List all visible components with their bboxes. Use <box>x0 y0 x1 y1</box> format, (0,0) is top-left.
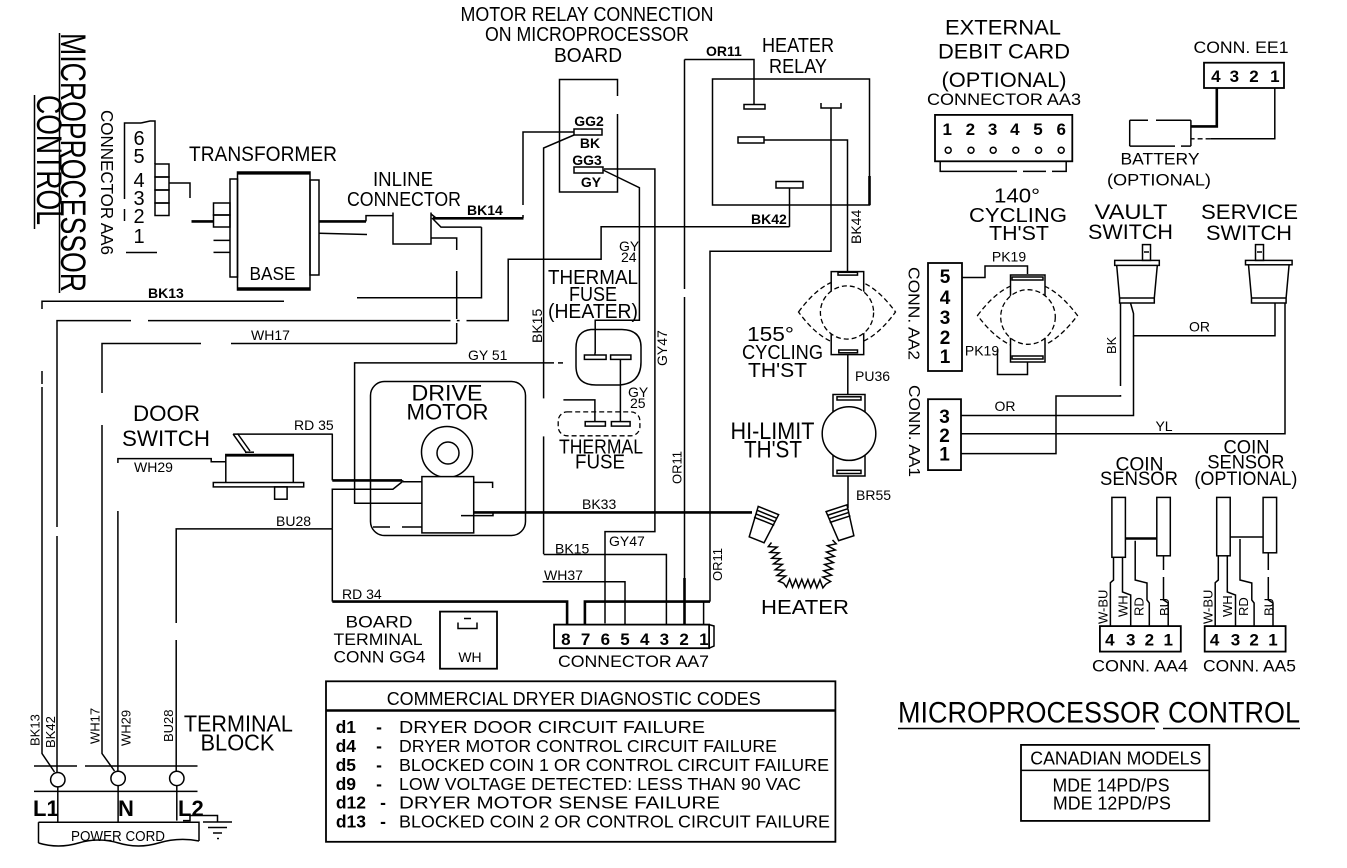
svg-text:d9: d9 <box>336 774 357 794</box>
pin numbers AA1 3..1 <box>939 407 950 466</box>
svg-text:5: 5 <box>620 630 629 649</box>
svg-text:WH: WH <box>458 649 481 665</box>
svg-text:TRANSFORMER: TRANSFORMER <box>189 143 337 166</box>
table rows d1..d13 <box>336 717 830 832</box>
wire EE1 pin4 to battery <box>1191 88 1217 126</box>
wire GY25 fuse to fuse <box>619 359 621 421</box>
inline connector U body <box>393 213 431 245</box>
svg-text:BK44: BK44 <box>848 210 864 244</box>
terminal block rails <box>34 766 198 791</box>
connector AA5 box <box>1205 626 1286 652</box>
transformer primary tap boxes <box>214 203 231 252</box>
battery box (dashed) <box>1130 120 1191 146</box>
title MICROPROCESSOR (vertical) <box>53 33 92 293</box>
connector AA1 box <box>928 399 961 470</box>
wire GY51 end dash <box>558 362 563 364</box>
wire WH29 <box>118 459 226 772</box>
wire OR vault to service <box>1131 303 1276 336</box>
svg-text:2: 2 <box>1249 631 1258 650</box>
motor lead lower-left tab <box>373 526 422 528</box>
svg-text:RD 34: RD 34 <box>342 586 382 602</box>
wire stub to transformer primary <box>192 220 214 223</box>
svg-text:1: 1 <box>940 347 951 368</box>
wire BK vault to AA1 pin1 <box>961 303 1121 454</box>
connector AA6 pin housing (4 squares) <box>155 164 169 216</box>
svg-text:5: 5 <box>940 267 951 288</box>
svg-text:N: N <box>118 796 134 821</box>
svg-text:3: 3 <box>988 120 997 139</box>
svg-text:4: 4 <box>1105 631 1115 650</box>
svg-text:GY47: GY47 <box>609 533 645 549</box>
svg-text:4: 4 <box>940 288 951 309</box>
svg-text:1: 1 <box>1163 631 1172 650</box>
svg-text:TH'ST: TH'ST <box>989 223 1049 245</box>
svg-text:DRYER MOTOR SENSE FAILURE: DRYER MOTOR SENSE FAILURE <box>399 793 720 813</box>
svg-text:BK14: BK14 <box>467 202 503 218</box>
coin sensor 2 wire labels W-BU WH RD BU (vertical) <box>1200 590 1276 624</box>
label DRIVE MOTOR <box>407 381 489 425</box>
motor lead right-top <box>474 482 493 488</box>
svg-text:-: - <box>380 812 386 832</box>
svg-text:CONN. AA1: CONN. AA1 <box>905 385 922 477</box>
svg-text:7: 7 <box>581 630 590 649</box>
connector AA2 box <box>928 263 962 371</box>
svg-text:BOARD: BOARD <box>346 613 413 632</box>
svg-text:BK33: BK33 <box>582 496 616 512</box>
pin numbers AA2 5..1 <box>940 267 951 368</box>
label DOOR SWITCH <box>122 401 210 451</box>
svg-text:RELAY: RELAY <box>769 56 827 78</box>
svg-text:CONNECTOR: CONNECTOR <box>347 189 461 211</box>
board terminal GG4 box <box>440 612 497 669</box>
coin sensor 2 body <box>1217 497 1277 555</box>
motor lead upper-left <box>402 481 422 483</box>
door switch foot <box>275 487 288 499</box>
svg-text:1: 1 <box>133 226 144 248</box>
vault switch S2 body <box>1115 245 1160 303</box>
wire BK33 <box>474 511 752 514</box>
label HI-LIMIT TH'ST <box>731 418 815 464</box>
wire OR AA1 pin3 to vault <box>961 336 1134 416</box>
wire RD34 to pin8 <box>332 602 567 625</box>
svg-text:GY: GY <box>581 174 602 190</box>
svg-text:HEATER: HEATER <box>762 35 834 57</box>
svg-text:BK13: BK13 <box>28 714 43 746</box>
pin numbers AA5 4..1 <box>1210 631 1278 650</box>
svg-text:d13: d13 <box>336 812 366 832</box>
svg-text:ON MICROPROCESSOR: ON MICROPROCESSOR <box>485 24 689 46</box>
svg-text:3: 3 <box>1230 67 1239 86</box>
svg-text:(OPTIONAL): (OPTIONAL) <box>1194 469 1297 490</box>
wire break patches (dash-dot style) <box>40 205 1123 640</box>
relay contact bottom <box>776 182 803 227</box>
label 155 CYCLING TH'ST <box>742 324 823 382</box>
relay coil terminal middle <box>738 137 848 272</box>
service switch S3 body <box>1246 245 1293 303</box>
svg-text:BK: BK <box>1104 336 1119 354</box>
svg-text:GY 51: GY 51 <box>468 347 508 363</box>
svg-text:(OPTIONAL): (OPTIONAL) <box>942 69 1067 92</box>
wire AA2 pin5 to thermostat 140 top <box>962 266 1028 278</box>
thermal fuse lower contacts <box>585 422 630 427</box>
wire OR11 vertical to AA7 pin2 <box>684 60 686 579</box>
pin numbers EE1 4..1 <box>1211 67 1279 86</box>
motor body block <box>422 477 474 533</box>
svg-text:-: - <box>376 736 382 756</box>
svg-text:3: 3 <box>939 407 950 428</box>
svg-text:6: 6 <box>601 630 610 649</box>
svg-text:WH: WH <box>1220 595 1235 617</box>
svg-text:3: 3 <box>1231 631 1240 650</box>
svg-text:GY47: GY47 <box>654 330 670 366</box>
connector AA4 box <box>1100 626 1181 652</box>
heater terminal right <box>826 505 857 542</box>
svg-text:24: 24 <box>621 249 637 265</box>
thermal fuse heater body <box>576 330 641 386</box>
coin sensor 1 wire labels W-BU WH RD BU (vertical) <box>1096 590 1172 624</box>
terminal labels vertical BK13 BK42 WH17 WH29 BU28 <box>28 708 177 748</box>
wire transformer secondary bottom <box>319 233 367 234</box>
svg-text:FUSE: FUSE <box>575 452 625 474</box>
svg-text:DRYER MOTOR CONTROL CIRCUIT FA: DRYER MOTOR CONTROL CIRCUIT FAILURE <box>399 736 777 756</box>
svg-text:L1: L1 <box>33 796 59 821</box>
svg-text:2: 2 <box>966 120 975 139</box>
label COIN SENSOR (OPTIONAL) <box>1194 438 1297 491</box>
svg-text:PK19: PK19 <box>965 343 999 359</box>
svg-text:INLINE: INLINE <box>373 169 433 191</box>
svg-text:W-BU: W-BU <box>1096 590 1111 624</box>
svg-text:POWER CORD: POWER CORD <box>71 828 165 845</box>
svg-text:CONN. AA4: CONN. AA4 <box>1092 657 1188 676</box>
svg-text:BU: BU <box>1157 598 1172 616</box>
wire WH37 to pin5 <box>543 582 625 625</box>
label VAULT SWITCH <box>1088 201 1173 244</box>
wire BK15 from GG2 <box>544 135 574 554</box>
svg-text:BK: BK <box>580 135 600 151</box>
label TERMINAL BLOCK <box>184 711 293 756</box>
svg-text:WH29: WH29 <box>134 459 173 475</box>
wire transformer secondary top <box>319 220 366 223</box>
wire GY24 from GG3 <box>595 170 639 353</box>
svg-text:5: 5 <box>133 146 144 168</box>
svg-text:5: 5 <box>1033 120 1042 139</box>
pin numbers AA7 8..1 <box>561 630 708 649</box>
svg-text:BASE: BASE <box>250 264 296 284</box>
wire BK15 to pin3 <box>544 555 667 625</box>
svg-text:d1: d1 <box>336 717 357 737</box>
pin numbers AA6 6..1 <box>133 128 144 248</box>
svg-text:RD: RD <box>1236 597 1251 616</box>
svg-text:2: 2 <box>679 630 688 649</box>
svg-text:3: 3 <box>1126 631 1135 650</box>
svg-text:-: - <box>376 755 382 775</box>
svg-text:25: 25 <box>630 395 646 411</box>
svg-text:HEATER: HEATER <box>761 597 849 619</box>
svg-text:CONNECTOR AA3: CONNECTOR AA3 <box>927 91 1081 109</box>
svg-text:BU28: BU28 <box>276 513 311 529</box>
svg-text:WH37: WH37 <box>544 567 583 583</box>
svg-text:BU: BU <box>1262 598 1277 616</box>
title CONTROL (vertical) <box>29 95 68 229</box>
svg-text:2: 2 <box>1249 67 1258 86</box>
svg-text:BOARD: BOARD <box>554 45 622 67</box>
svg-text:DOOR: DOOR <box>133 401 200 426</box>
svg-text:RD 35: RD 35 <box>294 417 334 433</box>
svg-text:1: 1 <box>1268 631 1277 650</box>
svg-text:MOTOR RELAY CONNECTION: MOTOR RELAY CONNECTION <box>461 4 714 26</box>
svg-text:CONN. AA2: CONN. AA2 <box>905 267 922 360</box>
wire GY51 <box>355 363 554 503</box>
AA3 bottom bracket <box>940 161 1066 171</box>
svg-text:OR: OR <box>1189 319 1210 335</box>
terminal GG3 <box>572 152 603 190</box>
svg-text:6: 6 <box>1056 120 1065 139</box>
door lever foot <box>245 451 254 453</box>
terminal GG2 <box>574 113 604 151</box>
svg-text:4: 4 <box>1010 120 1020 139</box>
svg-text:BK13: BK13 <box>148 285 184 301</box>
svg-text:4: 4 <box>1211 67 1221 86</box>
svg-text:CONN GG4: CONN GG4 <box>334 648 426 667</box>
table frame <box>326 681 835 842</box>
svg-text:L2: L2 <box>178 796 204 821</box>
svg-text:SERVICE: SERVICE <box>1201 201 1298 224</box>
svg-text:BR55: BR55 <box>856 487 891 503</box>
svg-text:YL: YL <box>1155 418 1172 434</box>
svg-text:GG2: GG2 <box>574 113 604 129</box>
svg-text:BATTERY: BATTERY <box>1121 150 1200 169</box>
door switch S1 lever <box>233 434 250 453</box>
svg-text:BK42: BK42 <box>751 211 787 227</box>
connector AA6 outline <box>125 121 158 253</box>
svg-text:TH'ST: TH'ST <box>748 360 807 382</box>
svg-text:(HEATER): (HEATER) <box>548 301 638 323</box>
label COIN SENSOR <box>1100 455 1178 491</box>
wire inline connector diagonal to x482 <box>357 218 482 298</box>
coin sensor 1 body <box>1112 497 1170 557</box>
svg-text:OR11: OR11 <box>706 43 742 59</box>
title MICROPROCESSOR CONTROL <box>898 697 1300 730</box>
svg-text:WH17: WH17 <box>88 708 103 744</box>
wire BK14 <box>431 214 524 218</box>
wire BR55 <box>847 476 849 508</box>
connector AA7 box <box>554 625 714 649</box>
svg-text:3: 3 <box>660 630 669 649</box>
ground symbol <box>183 816 232 839</box>
svg-text:WH17: WH17 <box>251 327 290 343</box>
pin sockets AA3 <box>945 147 1064 153</box>
svg-text:2: 2 <box>1145 631 1154 650</box>
coin sensor 2 leads <box>1215 539 1273 626</box>
label SERVICE SWITCH <box>1201 201 1298 245</box>
thermostat hi-limit body <box>822 395 876 477</box>
svg-text:BK15: BK15 <box>529 309 545 343</box>
heater terminal left <box>746 506 778 543</box>
svg-text:CONNECTOR AA6: CONNECTOR AA6 <box>97 110 117 255</box>
wire GY47 from GG3 <box>604 169 655 623</box>
wire BK42 <box>57 227 790 773</box>
svg-text:2: 2 <box>940 328 951 349</box>
svg-text:1: 1 <box>939 445 950 466</box>
thermostat 140 body <box>978 275 1078 362</box>
drive motor outline <box>371 382 526 536</box>
label EXTERNAL DEBIT CARD (OPTIONAL) CONNECTOR AA3 <box>927 17 1081 110</box>
svg-text:MDE 12PD/PS: MDE 12PD/PS <box>1053 794 1171 814</box>
wire BU28 <box>176 482 402 771</box>
svg-text:TERMINAL: TERMINAL <box>334 630 423 649</box>
wire AA6 to transformer <box>169 183 190 198</box>
svg-text:CONN. AA5: CONN. AA5 <box>1203 657 1296 676</box>
svg-text:1: 1 <box>699 630 708 649</box>
wire OR11 top <box>685 60 755 106</box>
svg-text:GG3: GG3 <box>572 152 602 168</box>
svg-text:DRYER DOOR CIRCUIT FAILURE: DRYER DOOR CIRCUIT FAILURE <box>399 717 705 737</box>
terminal stems below lugs <box>58 786 177 823</box>
svg-text:RD: RD <box>1131 597 1146 616</box>
svg-text:EXTERNAL: EXTERNAL <box>945 17 1061 40</box>
wire EE1 pin1 to battery <box>1191 88 1275 139</box>
svg-text:2: 2 <box>133 206 144 228</box>
terminal lug N <box>111 771 125 785</box>
svg-text:COMMERCIAL DRYER DIAGNOSTIC CO: COMMERCIAL DRYER DIAGNOSTIC CODES <box>387 688 761 709</box>
svg-text:-: - <box>376 717 382 737</box>
svg-text:3: 3 <box>940 308 951 329</box>
pin numbers AA4 4..1 <box>1105 631 1173 650</box>
board GG4 outline box <box>560 80 618 193</box>
label BATTERY (OPTIONAL) <box>1107 150 1211 190</box>
canadian models table <box>1021 745 1209 821</box>
svg-text:LOW VOLTAGE DETECTED: LESS THA: LOW VOLTAGE DETECTED: LESS THAN 90 VAC <box>399 774 801 794</box>
svg-text:PK19: PK19 <box>992 249 1026 265</box>
wire RD35 <box>233 434 404 482</box>
terminal lug L1 <box>51 773 65 787</box>
svg-text:-: - <box>376 774 382 794</box>
label BOARD TERMINAL CONN GG4 <box>334 613 426 667</box>
svg-text:MOTOR: MOTOR <box>407 400 489 425</box>
svg-text:TH'ST: TH'ST <box>744 437 802 464</box>
wire WH17 <box>102 344 457 772</box>
coin sensor 1 leads <box>1110 541 1168 626</box>
thermal fuse heater contacts <box>584 353 630 360</box>
svg-text:BK42: BK42 <box>43 716 58 748</box>
svg-text:BU28: BU28 <box>161 709 176 742</box>
svg-text:CONN. EE1: CONN. EE1 <box>1194 38 1289 57</box>
svg-text:OR11: OR11 <box>710 548 725 581</box>
svg-text:MICROPROCESSOR CONTROL: MICROPROCESSOR CONTROL <box>898 697 1300 730</box>
label THERMAL FUSE (HEATER) <box>548 267 638 323</box>
heater relay K1 box <box>713 79 870 205</box>
svg-text:8: 8 <box>561 630 570 649</box>
svg-text:SWITCH: SWITCH <box>1088 221 1173 244</box>
terminal lug L2 <box>170 771 184 785</box>
wire BK13 <box>42 301 284 772</box>
svg-text:BLOCKED COIN 2 OR CONTROL CIRC: BLOCKED COIN 2 OR CONTROL CIRCUIT FAILUR… <box>399 812 830 832</box>
wire GG2 drop to BK14 <box>523 132 574 218</box>
svg-text:d4: d4 <box>336 736 357 756</box>
relay contact top-right <box>821 103 841 108</box>
svg-text:-: - <box>380 793 386 813</box>
relay contact top-left <box>744 105 765 110</box>
thermal fuse lower body (dashed) <box>558 412 640 436</box>
transformer T1 body <box>230 172 319 290</box>
heater element zigzag <box>768 540 836 588</box>
svg-text:BLOCKED COIN 1 OR CONTROL CIRC: BLOCKED COIN 1 OR CONTROL CIRCUIT FAILUR… <box>399 755 829 775</box>
svg-text:DEBIT CARD: DEBIT CARD <box>938 41 1070 64</box>
svg-text:SENSOR: SENSOR <box>1100 469 1178 490</box>
door switch body <box>226 455 293 484</box>
svg-text:SWITCH: SWITCH <box>122 426 210 451</box>
svg-text:W-BU: W-BU <box>1200 590 1215 624</box>
power cord box <box>39 822 200 846</box>
connector AA3 box <box>935 115 1072 161</box>
label 140 CYCLING TH'ST <box>969 186 1067 246</box>
svg-text:BLOCK: BLOCK <box>201 730 276 756</box>
svg-text:OR: OR <box>995 398 1016 414</box>
svg-text:MDE 14PD/PS: MDE 14PD/PS <box>1053 776 1170 796</box>
wire RD34 drop from BU28 junction <box>331 529 333 602</box>
svg-text:CONNECTOR AA7: CONNECTOR AA7 <box>558 652 709 671</box>
svg-text:1: 1 <box>1270 67 1279 86</box>
svg-text:4: 4 <box>640 630 650 649</box>
svg-text:d12: d12 <box>336 793 366 813</box>
motor pulley circles <box>422 427 473 478</box>
door switch base plate <box>213 483 303 487</box>
svg-text:OR11: OR11 <box>670 451 685 484</box>
svg-text:WH: WH <box>1115 595 1130 617</box>
svg-text:SWITCH: SWITCH <box>1206 222 1292 245</box>
wire to lower fuse left contact <box>563 400 595 422</box>
svg-text:1: 1 <box>942 120 951 139</box>
svg-text:PU36: PU36 <box>855 368 890 384</box>
label THERMAL FUSE (lower) <box>559 437 643 474</box>
connector EE1 box <box>1204 63 1284 88</box>
wire YL AA1 pin2 to service <box>961 303 1285 434</box>
svg-text:d5: d5 <box>336 755 357 775</box>
thermostat 155 body <box>799 272 896 355</box>
svg-text:(OPTIONAL): (OPTIONAL) <box>1107 171 1211 190</box>
wire relay line to pin7 and pin1 <box>585 602 710 625</box>
svg-text:WH29: WH29 <box>119 710 134 746</box>
svg-text:4: 4 <box>1210 631 1220 650</box>
wire PU36 <box>847 355 849 395</box>
svg-text:CANADIAN MODELS: CANADIAN MODELS <box>1030 749 1201 769</box>
wire inline connector to WH17 (x457) <box>432 238 457 344</box>
label MOTOR RELAY CONNECTION ON MICROPROCESSOR BOARD <box>461 4 714 67</box>
wire from relay top-right contact down <box>710 108 831 251</box>
pin numbers AA3 1..6 <box>942 120 1065 139</box>
wire thermostat 140 bottom loop <box>998 349 1028 375</box>
